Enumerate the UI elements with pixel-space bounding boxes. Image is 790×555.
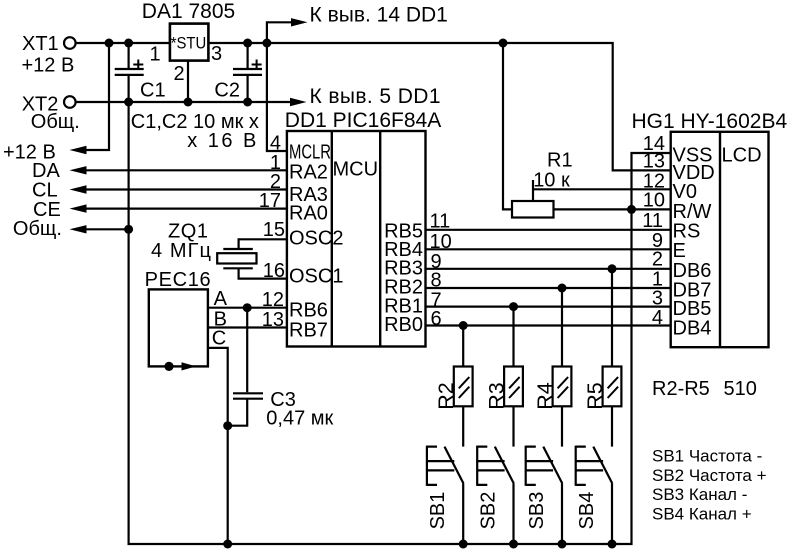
svg-text:PEC16: PEC16 (145, 269, 211, 291)
svg-text:DB4: DB4 (673, 318, 712, 340)
svg-text:E: E (673, 240, 686, 262)
svg-text:RB6: RB6 (289, 300, 328, 322)
svg-text:A: A (214, 288, 228, 310)
svg-text:0,47 мк: 0,47 мк (266, 408, 333, 430)
svg-text:SB4 Канал +: SB4 Канал + (652, 504, 752, 523)
svg-text:12: 12 (262, 289, 284, 311)
svg-text:10: 10 (430, 231, 452, 253)
svg-text:10 к: 10 к (533, 170, 570, 192)
svg-text:C: C (212, 328, 226, 350)
svg-text:17: 17 (259, 190, 281, 212)
svg-text:К выв. 14 DD1: К выв. 14 DD1 (310, 3, 448, 26)
svg-text:R1: R1 (547, 150, 573, 172)
svg-text:SB2: SB2 (477, 492, 499, 530)
svg-text:R2: R2 (434, 382, 458, 409)
svg-text:MCU: MCU (333, 159, 379, 181)
svg-text:*STU: *STU (171, 34, 207, 53)
svg-text:2: 2 (173, 63, 184, 85)
svg-text:SB3 Канал -: SB3 Канал - (652, 485, 747, 504)
svg-text:C1: C1 (140, 80, 166, 102)
svg-text:SB4: SB4 (576, 492, 598, 530)
svg-text:SB3: SB3 (526, 492, 548, 530)
svg-text:V0: V0 (673, 181, 697, 203)
svg-text:SB2 Частота +: SB2 Частота + (652, 466, 767, 485)
svg-text:DD1 PIC16F84A: DD1 PIC16F84A (285, 109, 441, 132)
svg-text:OSC2: OSC2 (289, 228, 343, 250)
svg-text:R3: R3 (484, 382, 508, 410)
svg-text:2: 2 (652, 248, 663, 270)
svg-text:11: 11 (642, 210, 663, 232)
svg-text:К выв. 5 DD1: К выв. 5 DD1 (310, 85, 441, 108)
svg-text:510: 510 (724, 378, 757, 400)
svg-text:+12 В: +12 В (22, 54, 75, 76)
svg-text:OSC1: OSC1 (289, 266, 343, 288)
svg-text:R4: R4 (533, 382, 557, 410)
svg-text:HG1 HY-1602B4: HG1 HY-1602B4 (632, 110, 788, 133)
svg-text:6: 6 (431, 308, 442, 330)
svg-text:Общ.: Общ. (31, 111, 80, 133)
svg-text:15: 15 (263, 219, 285, 241)
svg-text:4 МГц: 4 МГц (151, 240, 211, 262)
svg-text:DA1 7805: DA1 7805 (142, 0, 235, 23)
svg-text:13: 13 (262, 309, 284, 331)
svg-text:Общ.: Общ. (13, 218, 62, 240)
svg-text:XT1: XT1 (22, 33, 59, 55)
svg-text:R5: R5 (583, 382, 607, 410)
svg-text:C2: C2 (214, 80, 240, 102)
svg-text:11: 11 (430, 210, 451, 232)
svg-text:MCLR: MCLR (289, 142, 331, 164)
svg-text:RB0: RB0 (384, 314, 423, 336)
svg-text:LCD: LCD (722, 145, 762, 167)
svg-text:RA0: RA0 (289, 203, 328, 225)
svg-text:16: 16 (263, 260, 285, 282)
svg-text:SB1: SB1 (427, 492, 449, 530)
svg-text:13: 13 (643, 151, 665, 173)
svg-text:8: 8 (431, 270, 442, 292)
svg-text:4: 4 (652, 307, 663, 329)
svg-text:R2-R5: R2-R5 (652, 378, 710, 400)
svg-text:3: 3 (211, 43, 222, 65)
svg-text:1: 1 (149, 44, 160, 66)
svg-text:SB1 Частота -: SB1 Частота - (652, 447, 762, 466)
svg-text:10: 10 (643, 190, 665, 212)
svg-text:RB7: RB7 (289, 320, 328, 342)
svg-text:RA2: RA2 (289, 162, 328, 184)
